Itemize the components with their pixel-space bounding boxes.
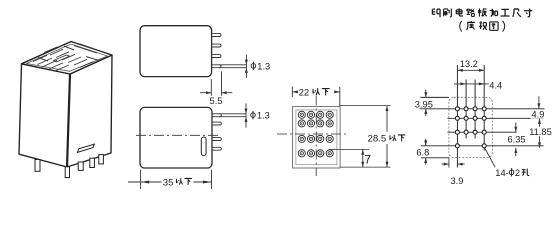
relay 3D view: pin A bbox=[35, 160, 40, 172]
relay 3D view: pin D bbox=[90, 158, 95, 167]
PCB hole row line 3 bbox=[448, 131, 517, 133]
relay 3D view: right side face bbox=[67, 55, 112, 167]
PCB holes row 1 bbox=[455, 107, 486, 111]
dimension 28.5 or less: reference lines bbox=[339, 106, 390, 168]
svg-text:7: 7 bbox=[364, 152, 371, 166]
side view B body bbox=[140, 107, 212, 168]
dimension 3.95: arrows bbox=[424, 90, 427, 116]
side view A pin 2 bbox=[212, 44, 221, 47]
bottom view: vertical centerline bbox=[315, 96, 317, 177]
svg-text:6.8: 6.8 bbox=[416, 147, 429, 157]
bottom view: inner outline bbox=[296, 110, 337, 165]
svg-text:1.3: 1.3 bbox=[257, 61, 270, 71]
PCB title line 1 bbox=[432, 8, 532, 17]
dimension 7: label bbox=[364, 152, 371, 166]
svg-text:22: 22 bbox=[299, 87, 310, 98]
side view B centerline bbox=[136, 134, 219, 136]
relay 3D view: top face bbox=[22, 42, 113, 75]
side view B slot bbox=[201, 137, 206, 156]
relay 3D view: pin C bbox=[78, 162, 83, 170]
svg-text:5.5: 5.5 bbox=[210, 96, 223, 106]
dimension 5.5: arrows bbox=[200, 91, 232, 94]
PCB hole column line 2 bbox=[465, 80, 467, 139]
svg-text:11.85: 11.85 bbox=[529, 127, 552, 137]
svg-text:13.2: 13.2 bbox=[460, 59, 478, 69]
svg-text:1.3: 1.3 bbox=[257, 111, 270, 121]
relay 3D view: pin B bbox=[65, 167, 69, 178]
dimension 3.9: label bbox=[451, 176, 464, 186]
dimension 28.5 or less: label bbox=[367, 133, 406, 145]
dimension 3.95: label bbox=[415, 99, 433, 109]
dimension 22 or less: extension lines bbox=[292, 87, 340, 107]
relay 3D view: top label texture bbox=[33, 44, 99, 71]
dimension 22 or less: arrows bbox=[292, 90, 340, 93]
dimension 6.35: label bbox=[507, 134, 526, 144]
dimension phi1.3 upper: label bbox=[251, 61, 270, 71]
PCB outline top extension bbox=[420, 96, 449, 98]
dimension 13.2: arrow line bbox=[457, 69, 484, 72]
bottom view: pin contacts grid bbox=[298, 111, 333, 157]
svg-text:3.95: 3.95 bbox=[415, 99, 433, 109]
PCB hole row line 1 bbox=[420, 108, 545, 110]
dimension 4.4: arrow line bbox=[454, 82, 489, 85]
svg-text:3.9: 3.9 bbox=[451, 176, 464, 186]
side view A pin 3 bbox=[212, 55, 221, 58]
side view A pin 4 bbox=[212, 65, 221, 68]
dimension 35 or less: extension lines bbox=[141, 170, 212, 189]
dimension 5.5: label bbox=[210, 96, 223, 106]
side view B pin 3 bbox=[212, 138, 221, 141]
PCB title line 2 bbox=[460, 21, 505, 32]
dimension 3.9: reference verticals bbox=[449, 158, 458, 167]
svg-text:14-: 14- bbox=[495, 168, 508, 178]
side view B pin 4 bbox=[212, 147, 221, 150]
relay 3D view: slot mark on right face bbox=[78, 144, 95, 152]
svg-text:4.9: 4.9 bbox=[532, 110, 545, 120]
label 14-phi2 holes: text bbox=[495, 168, 529, 178]
dimension phi1.3 lower: label bbox=[251, 111, 270, 121]
bottom view: horizontal centerline bbox=[277, 133, 349, 135]
PCB hole row line 2 bbox=[448, 117, 545, 119]
dimension 4.4: label bbox=[489, 80, 502, 90]
dimension 7: reference line bbox=[329, 148, 369, 150]
svg-text:6.35: 6.35 bbox=[508, 135, 526, 145]
PCB holes row 4 bbox=[455, 144, 486, 148]
dimension 13.2: label bbox=[460, 59, 478, 69]
dimension 35 or less: arrow line bbox=[128, 181, 212, 184]
dimension phi1.3 upper: extension lines bbox=[219, 65, 246, 68]
dimension phi1.3 lower: arrow line and arrows bbox=[245, 104, 248, 128]
dimension 22 or less: label bbox=[299, 87, 330, 98]
dimension 35 or less: label bbox=[163, 177, 192, 188]
label 14-phi2 holes: leader line bbox=[485, 149, 495, 168]
PCB hole row line 4 bbox=[421, 145, 544, 147]
PCB hole column line 4 bbox=[483, 65, 485, 151]
dimension 11.85: arrow line bbox=[538, 119, 541, 148]
dimension 7: arrow line bbox=[361, 149, 364, 167]
dimension 4.9: arrow bbox=[537, 96, 540, 108]
dimension 5.5: extension lines bbox=[211, 72, 221, 96]
PCB outline bottom extension bbox=[421, 157, 450, 159]
relay 3D view: pin E bbox=[99, 155, 104, 164]
PCB outline bbox=[449, 97, 492, 157]
dimension 4.9: label bbox=[531, 110, 549, 120]
svg-text:4.4: 4.4 bbox=[489, 80, 502, 90]
relay 3D view: left side face bbox=[19, 64, 70, 167]
side view A pin 1 bbox=[212, 34, 221, 37]
PCB holes row 2 bbox=[455, 116, 486, 120]
dimension phi1.3 upper: arrow line and arrows bbox=[245, 55, 248, 79]
side view B pin 2 bbox=[212, 122, 221, 125]
dimension 28.5 or less: arrow line bbox=[386, 106, 389, 168]
svg-text:2: 2 bbox=[515, 168, 520, 178]
relay 3D view: front center edge bbox=[67, 74, 70, 167]
dimension 6.8: arrows bbox=[424, 139, 427, 165]
side view A body bbox=[140, 26, 212, 77]
dimension 11.85: label bbox=[529, 127, 556, 137]
PCB hole column line 3 bbox=[474, 80, 476, 139]
dimension 6.35: arrows bbox=[514, 123, 517, 157]
PCB hole column line 1 bbox=[456, 65, 458, 167]
bottom view: outer outline bbox=[293, 107, 341, 168]
dimension 3.9: arrows bbox=[442, 163, 465, 166]
side view B pin 1 bbox=[212, 114, 221, 117]
svg-text:35: 35 bbox=[163, 177, 174, 188]
dimension 6.8: label bbox=[416, 147, 429, 157]
PCB holes row 3 bbox=[455, 130, 486, 134]
dimension phi1.3 lower: extension lines bbox=[219, 114, 246, 117]
svg-text:28.5: 28.5 bbox=[368, 134, 387, 145]
